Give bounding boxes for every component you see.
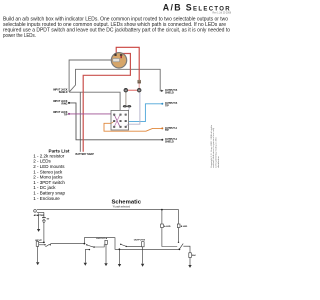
svg-text:SHIELD: SHIELD — [165, 92, 174, 95]
svg-text:1 - DC jack: 1 - DC jack — [33, 185, 56, 190]
svg-text:ADAPTER: ADAPTER — [34, 214, 45, 217]
svg-text:1 - Stereo jack: 1 - Stereo jack — [33, 169, 63, 174]
svg-text:TIP: TIP — [165, 105, 169, 108]
svg-text:1 - Enclosure: 1 - Enclosure — [33, 196, 60, 201]
svg-text:1 - Battery snap: 1 - Battery snap — [33, 191, 65, 196]
svg-text:2 - LED mounts: 2 - LED mounts — [33, 164, 65, 169]
svg-text:INPUT: INPUT — [35, 240, 42, 242]
svg-text:A/B Selector: A/B Selector — [163, 3, 231, 13]
svg-text:A LED: A LED — [164, 225, 171, 228]
svg-text:TIP: TIP — [64, 114, 68, 117]
svg-text:SHIELD: SHIELD — [59, 91, 68, 94]
svg-text:Schematic: Schematic — [112, 200, 142, 206]
svg-text:'A' path selected: 'A' path selected — [113, 206, 131, 209]
svg-text:RING: RING — [62, 103, 68, 106]
svg-text:TIP: TIP — [165, 129, 169, 132]
svg-text:required use a DPDT switch and: required use a DPDT switch and leave out… — [3, 27, 230, 33]
svg-text:SHIELD: SHIELD — [165, 141, 174, 144]
svg-text:BATTERY SNAP: BATTERY SNAP — [76, 153, 95, 156]
svg-text:distribution: distribution — [217, 155, 220, 168]
svg-text:OUTPUT A: OUTPUT A — [96, 237, 108, 240]
svg-text:OUTPUT B: OUTPUT B — [134, 240, 146, 242]
svg-text:2 - Mono jacks: 2 - Mono jacks — [33, 175, 63, 180]
svg-text:1 - 2.2k resistor: 1 - 2.2k resistor — [33, 153, 65, 158]
svg-text:B LED: B LED — [181, 226, 188, 228]
svg-text:power the LEDs.: power the LEDs. — [3, 33, 36, 39]
svg-text:1 - 3PDT switch: 1 - 3PDT switch — [33, 180, 65, 185]
svg-text:Rev 1 Jul 20 2008: Rev 1 Jul 20 2008 — [212, 13, 231, 15]
svg-text:2 - LEDs: 2 - LEDs — [33, 159, 51, 164]
